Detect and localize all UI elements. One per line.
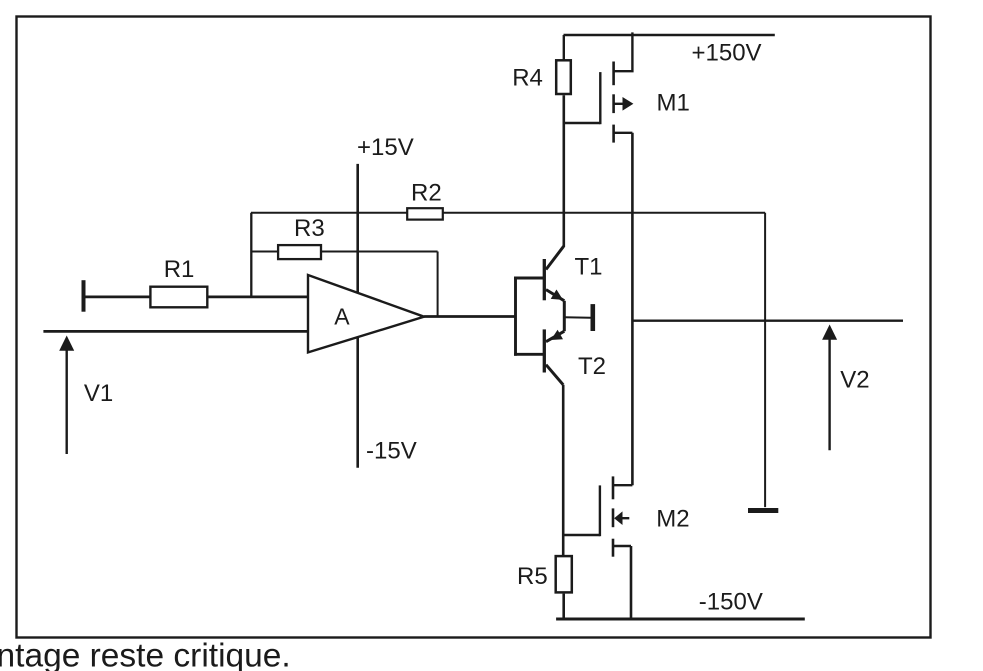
- wire R3 right vertical to output: [437, 252, 439, 317]
- arrow V1: [59, 336, 74, 455]
- transistor T2: [544, 329, 564, 384]
- wire feedback right vertical: [764, 213, 766, 507]
- wire input node vertical: [250, 213, 252, 297]
- terminal bar input: [82, 280, 86, 312]
- svg-text:R5: R5: [517, 563, 548, 590]
- arrow V2: [822, 325, 837, 451]
- resistor R3: [278, 245, 321, 259]
- op-amp U1: [308, 275, 424, 352]
- arrow T1 emitter: [551, 290, 563, 300]
- svg-text:R2: R2: [411, 179, 442, 206]
- svg-text:ntage reste critique.: ntage reste critique.: [0, 638, 291, 671]
- wire R4 bottom to T1 collector: [562, 95, 565, 247]
- resistor R5: [556, 556, 572, 592]
- wire emitters to terminal bar: [564, 316, 590, 319]
- svg-text:R3: R3: [294, 215, 325, 242]
- resistor R4: [556, 60, 571, 94]
- svg-text:-15V: -15V: [366, 438, 417, 465]
- resistor R2: [407, 208, 443, 219]
- svg-text:+15V: +15V: [357, 134, 414, 161]
- wire R3 horizontal: [251, 251, 437, 253]
- wire M2 source to -150V rail: [630, 546, 633, 619]
- arrow T2 emitter: [551, 330, 563, 340]
- wire T2 collector to R5: [562, 385, 565, 555]
- transistor T1: [544, 246, 564, 331]
- wire +150V top rail: [564, 34, 775, 37]
- svg-text:T1: T1: [575, 254, 603, 281]
- svg-text:M1: M1: [657, 90, 690, 117]
- wire M1 source to M2 drain (output node vertical): [631, 133, 634, 485]
- transistor M1: [564, 32, 634, 142]
- resistor R1: [150, 287, 207, 308]
- terminal bar middle: [590, 304, 595, 331]
- wire op-amp output to base node: [424, 315, 515, 318]
- wire output line: [632, 320, 903, 322]
- wire R5 bottom: [562, 594, 565, 619]
- wire V1 input line: [43, 330, 307, 333]
- transistor T1 and T2 base network: [514, 277, 544, 356]
- svg-text:-150V: -150V: [699, 589, 763, 616]
- svg-text:R1: R1: [164, 256, 195, 283]
- terminal bar right: [748, 508, 778, 513]
- wire input to R1: [84, 295, 151, 298]
- transistor M2: [563, 476, 632, 556]
- svg-text:A: A: [334, 304, 350, 330]
- wire -150V bottom rail: [556, 618, 805, 621]
- svg-text:T2: T2: [578, 353, 606, 380]
- wire R1 to op-amp inverting input: [207, 295, 308, 298]
- wire +15V supply vertical: [356, 164, 359, 468]
- wire R4 top lead: [563, 35, 565, 61]
- svg-text:V1: V1: [84, 380, 113, 407]
- svg-text:R4: R4: [512, 65, 543, 92]
- svg-text:+150V: +150V: [692, 40, 762, 67]
- svg-text:M2: M2: [656, 506, 689, 533]
- wire R2 feedback horizontal: [251, 212, 765, 214]
- svg-text:V2: V2: [840, 367, 869, 394]
